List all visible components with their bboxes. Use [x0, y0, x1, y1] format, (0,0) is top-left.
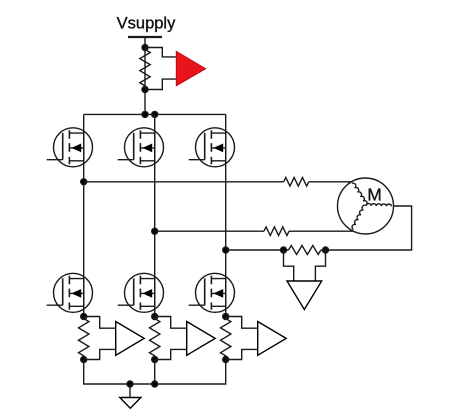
op-amp U6 phase sense: [258, 322, 287, 356]
node R5 bottom: [152, 357, 158, 363]
node phase C: [223, 247, 229, 253]
wire R5 bottom to ground rail: [154, 360, 156, 385]
node sense resistor right: [323, 247, 329, 253]
wire sense right to amp input: [315, 250, 325, 281]
op-amp U5 phase sense: [187, 322, 216, 356]
node ground rail R5: [152, 381, 158, 387]
resistor R6 phase sense: [221, 317, 231, 360]
op-amp U4 phase sense: [116, 322, 145, 356]
wire shunt top to amp input: [145, 48, 176, 57]
node rail supply junction: [142, 111, 148, 117]
svg-text:M: M: [367, 185, 382, 205]
node supply bottom: [142, 87, 148, 93]
resistor phase B winding R: [264, 227, 289, 236]
transistor Q6 (Q6 low-side C): [189, 273, 235, 312]
transistor Q4 (Q4 low-side A): [47, 273, 93, 312]
wire phase B resistor to motor terminal: [289, 230, 353, 232]
node R6 bottom: [223, 357, 229, 363]
node ground rail stub: [127, 381, 133, 387]
node phase A: [81, 179, 87, 185]
resistor Rshunt (supply current sense): [140, 48, 150, 90]
wire Vsupply to bridge rail: [144, 37, 146, 114]
node supply top: [142, 45, 148, 51]
wire phase C to sense resistor: [226, 249, 289, 251]
ground symbol: [129, 384, 131, 398]
resistor R4 phase sense: [78, 317, 88, 360]
wire column phase A (Q1 drain-source to Q4 drain): [83, 114, 85, 316]
motor M: [338, 178, 394, 234]
wire R4 top to amp: [84, 317, 116, 329]
node Q6 source: [223, 314, 229, 320]
wire top bridge rail: [84, 113, 226, 115]
wire R6 bottom to amp: [226, 349, 258, 359]
wire phase A resistor to motor terminal: [309, 181, 352, 183]
transistor Q1 (Q1 high-side A): [47, 128, 93, 167]
wire ground rail: [84, 360, 226, 385]
transistor Q2 (Q2 high-side B): [118, 128, 164, 167]
node rail phase B drain junction: [152, 111, 158, 117]
wire sense left to amp input: [284, 250, 294, 281]
wire column phase C (Q3 drain-source to Q6 drain): [225, 114, 227, 316]
node Q5 source: [152, 314, 158, 320]
node phase B: [152, 228, 158, 234]
wire phase B to motor: [155, 230, 264, 232]
supply rail bar: [128, 36, 162, 38]
wire column phase B (Q2 drain-source to Q5 drain): [154, 114, 156, 316]
node sense resistor left: [281, 247, 287, 253]
resistor R5 phase sense: [150, 317, 160, 360]
transistor Q5 (Q5 low-side B): [118, 273, 164, 312]
wire R5 bottom to amp: [155, 349, 187, 359]
wire R4 bottom to amp: [84, 349, 116, 359]
wire R5 top to amp: [155, 317, 187, 329]
op-amp phase C current sense: [287, 281, 322, 310]
resistor phase C current sense: [289, 246, 321, 255]
wire R6 top to amp: [226, 317, 258, 329]
op-amp supply current sense (red): [176, 51, 205, 85]
node R4 bottom: [81, 357, 87, 363]
svg-text:Vsupply: Vsupply: [117, 15, 176, 33]
wire shunt bottom to amp input: [145, 79, 176, 89]
transistor Q3 (Q3 high-side C): [189, 128, 235, 167]
resistor phase A winding R: [284, 178, 309, 187]
node Q4 source: [81, 314, 87, 320]
wire sense resistor to motor right terminal: [321, 206, 412, 250]
wire phase A to motor: [84, 181, 284, 183]
